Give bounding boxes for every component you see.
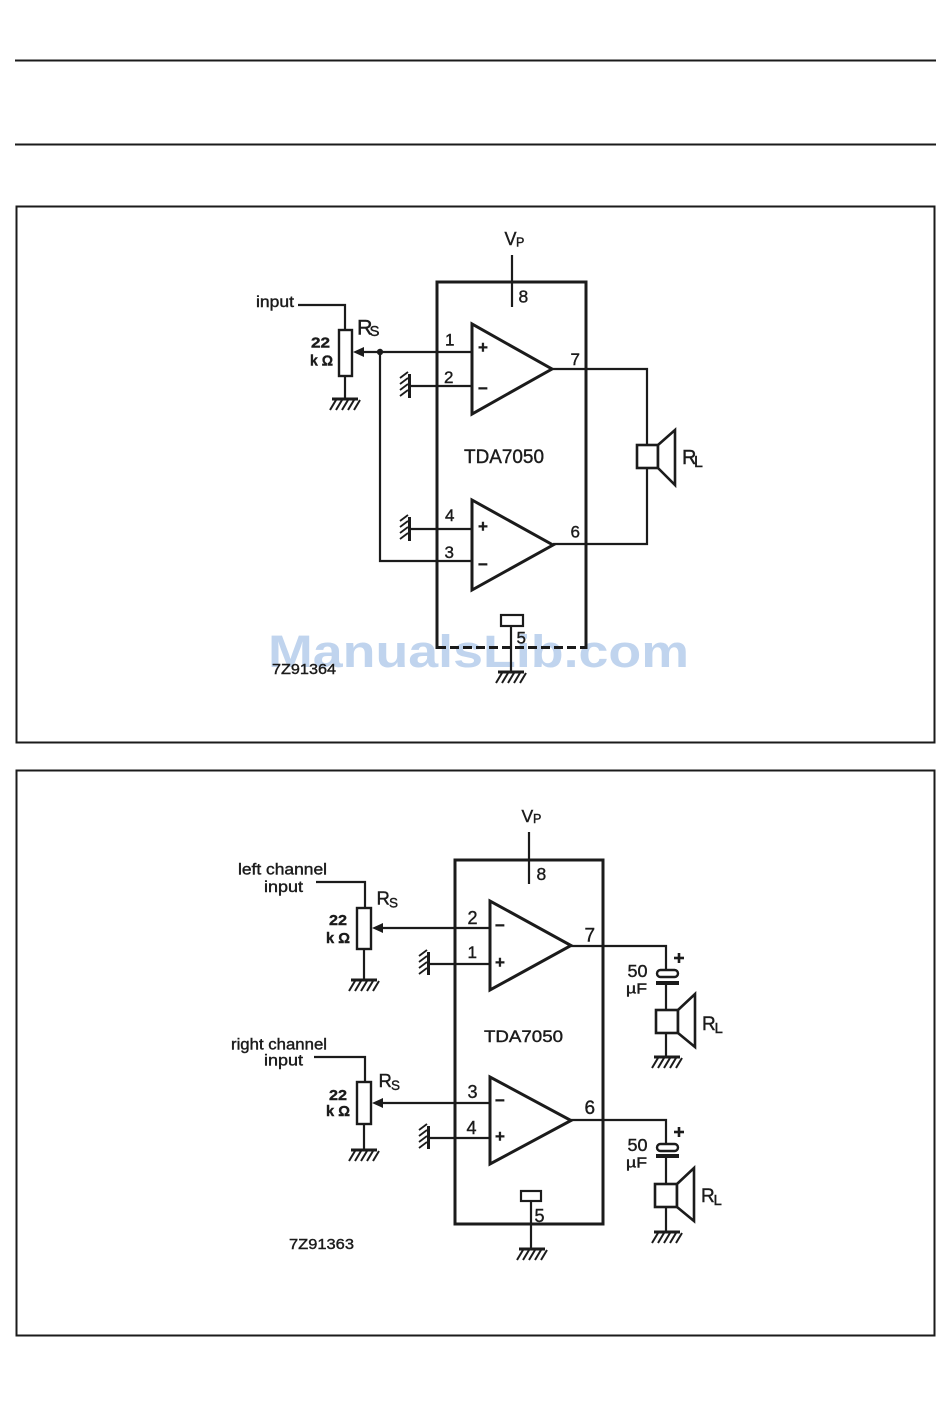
svg-text:7Z91363: 7Z91363 xyxy=(289,1237,354,1253)
value 22 kOhm xyxy=(310,336,333,370)
input label xyxy=(256,294,295,311)
wire feedback node down to pin 3 xyxy=(380,352,472,561)
wire speaker left to ground xyxy=(665,1033,667,1056)
svg-text:µF: µF xyxy=(626,982,647,998)
pin 6 label xyxy=(571,523,580,542)
svg-text:1: 1 xyxy=(468,943,477,962)
wire RS right to ground xyxy=(363,1124,365,1149)
wiper arrow wire to pin 2 xyxy=(372,923,490,933)
svg-text:+: + xyxy=(478,338,488,357)
svg-text:1: 1 xyxy=(445,331,454,350)
pin 7 label xyxy=(585,926,596,947)
svg-text:50: 50 xyxy=(628,961,648,981)
wire pin 2 xyxy=(410,385,472,387)
label RL right xyxy=(701,1186,722,1209)
svg-text:22: 22 xyxy=(329,1088,347,1104)
pin 2 label xyxy=(468,908,478,928)
svg-text:−: − xyxy=(478,379,488,398)
svg-text:8: 8 xyxy=(537,864,547,884)
svg-text:P: P xyxy=(516,236,524,250)
chassis ground at pin 2 xyxy=(400,372,410,398)
ground at pin 5 xyxy=(517,1249,547,1260)
chassis ground at pin 1 xyxy=(419,950,429,975)
left channel input label xyxy=(238,862,327,897)
wire pin 4 xyxy=(429,1137,490,1139)
op-amp U1b xyxy=(472,500,553,590)
pin 5 label xyxy=(535,1206,545,1226)
ground at pin 5 xyxy=(496,672,526,683)
svg-text:TDA7050: TDA7050 xyxy=(464,447,544,468)
svg-text:µF: µF xyxy=(626,1156,647,1172)
node label Vp xyxy=(522,806,542,826)
label RL xyxy=(682,447,703,471)
svg-text:7: 7 xyxy=(585,926,596,947)
svg-text:input: input xyxy=(264,1053,304,1070)
value 22 kOhm left xyxy=(326,913,350,947)
svg-text:left channel: left channel xyxy=(238,862,327,879)
label RS left xyxy=(377,888,399,911)
wire right input to RS xyxy=(314,1057,365,1082)
node junction at wiper xyxy=(377,349,383,355)
pin 8 label xyxy=(537,864,547,884)
pin 8 label xyxy=(519,287,529,307)
svg-text:22: 22 xyxy=(329,913,347,929)
speaker RL xyxy=(637,430,675,485)
IC U1 TDA7050 box xyxy=(437,282,586,649)
wire pin 7 to speaker xyxy=(552,369,647,445)
label RS right xyxy=(379,1070,401,1093)
pin 7 label xyxy=(571,350,580,369)
svg-text:R: R xyxy=(379,1070,392,1091)
capacitor C1 50uF xyxy=(656,970,679,983)
pin 3 label xyxy=(468,1082,478,1102)
pin 1 label xyxy=(445,331,454,350)
pin 1 label xyxy=(468,943,477,962)
svg-text:V: V xyxy=(522,806,534,826)
capacitor C2 50uF xyxy=(656,1144,679,1156)
ground below RS right xyxy=(349,1150,379,1161)
svg-text:−: − xyxy=(495,916,505,935)
svg-text:3: 3 xyxy=(445,543,454,562)
wire speaker right to ground xyxy=(665,1207,667,1231)
svg-text:V: V xyxy=(505,229,517,249)
wire node to pin 1 xyxy=(380,351,472,353)
ground below speaker right xyxy=(652,1232,682,1243)
svg-text:4: 4 xyxy=(467,1118,477,1138)
svg-text:8: 8 xyxy=(519,287,529,307)
ground below RS left xyxy=(349,980,379,991)
svg-text:P: P xyxy=(533,812,541,826)
wire C1 to speaker xyxy=(665,985,667,1010)
node label Vp xyxy=(505,229,525,250)
polarity plus C1 xyxy=(674,953,684,963)
wiper arrow into RS xyxy=(353,347,380,357)
polarity plus C2 xyxy=(674,1127,684,1137)
svg-text:k Ω: k Ω xyxy=(326,930,350,947)
op-amp U1a xyxy=(472,324,552,414)
svg-text:3: 3 xyxy=(468,1082,478,1102)
label RL left xyxy=(702,1014,723,1037)
svg-text:right channel: right channel xyxy=(231,1037,327,1054)
svg-text:TDA7050: TDA7050 xyxy=(484,1028,563,1046)
wiper arrow wire to pin 3 xyxy=(372,1098,490,1108)
svg-text:L: L xyxy=(694,454,703,471)
svg-text:6: 6 xyxy=(585,1098,596,1119)
pin 3 label xyxy=(445,543,454,562)
svg-text:−: − xyxy=(495,1091,505,1110)
svg-text:L: L xyxy=(714,1192,722,1209)
watermark ManualsLib.com xyxy=(268,626,689,677)
svg-text:L: L xyxy=(715,1020,723,1037)
wire Vp supply to pin 8 xyxy=(528,832,530,884)
svg-text:k Ω: k Ω xyxy=(310,353,333,370)
chassis ground at pin 4 xyxy=(400,515,410,541)
svg-text:5: 5 xyxy=(517,629,526,648)
svg-text:50: 50 xyxy=(628,1135,648,1155)
svg-text:+: + xyxy=(495,953,505,972)
wire Vp supply to pin 8 xyxy=(511,255,513,307)
pin 5 stub xyxy=(501,615,523,671)
op-amp U2b xyxy=(490,1077,571,1164)
svg-text:+: + xyxy=(495,1127,505,1146)
speaker RL right xyxy=(655,1168,694,1221)
pin 5 label xyxy=(517,629,526,648)
pin 4 label xyxy=(445,506,454,525)
value 22 kOhm right xyxy=(326,1088,350,1120)
wire RS left to ground xyxy=(363,949,365,979)
pin 5 stub xyxy=(521,1191,541,1248)
chassis ground at pin 4 xyxy=(419,1124,429,1149)
svg-text:k Ω: k Ω xyxy=(326,1103,350,1120)
right channel input label xyxy=(231,1037,327,1070)
value 50 uF C2 xyxy=(626,1135,648,1172)
wire input to Rs xyxy=(298,305,345,330)
wire pin 7 to C1 xyxy=(571,946,666,970)
svg-text:S: S xyxy=(370,323,380,340)
svg-text:22: 22 xyxy=(311,336,330,352)
wire resistor to ground xyxy=(344,376,346,398)
op-amp U2a xyxy=(490,901,571,990)
wire left input to RS xyxy=(316,882,365,908)
ground below RS xyxy=(330,399,360,410)
svg-text:input: input xyxy=(256,294,295,311)
svg-text:R: R xyxy=(377,888,390,909)
resistor RS (22 k) xyxy=(339,330,352,376)
svg-text:5: 5 xyxy=(535,1206,545,1226)
pin 2 label xyxy=(444,368,453,387)
wire pin 4 xyxy=(410,528,472,530)
svg-text:2: 2 xyxy=(468,908,478,928)
svg-text:S: S xyxy=(389,896,398,911)
resistor RS left (22 k) xyxy=(357,908,371,949)
figure code 7Z91363 xyxy=(289,1237,354,1253)
svg-text:S: S xyxy=(391,1078,400,1093)
wire pin 1 xyxy=(429,963,490,965)
IC U2 TDA7050 box xyxy=(455,860,603,1224)
resistor RS right (22 k) xyxy=(357,1082,371,1124)
value 50 uF C1 xyxy=(626,961,648,998)
figure code 7Z91364 xyxy=(272,661,336,678)
svg-text:7Z91364: 7Z91364 xyxy=(272,661,336,678)
wire pin 6 to C2 xyxy=(571,1120,666,1144)
svg-text:4: 4 xyxy=(445,506,454,525)
pin 4 label xyxy=(467,1118,477,1138)
svg-text:2: 2 xyxy=(444,368,453,387)
svg-text:7: 7 xyxy=(571,350,580,369)
speaker RL left xyxy=(656,994,695,1047)
wire C2 to speaker xyxy=(665,1158,667,1184)
label RS xyxy=(357,316,380,341)
svg-text:6: 6 xyxy=(571,523,580,542)
ground below speaker left xyxy=(652,1057,682,1068)
svg-text:−: − xyxy=(478,555,488,574)
pin 6 label xyxy=(585,1098,596,1119)
svg-text:input: input xyxy=(264,879,304,896)
wire pin 6 to speaker xyxy=(553,468,647,544)
svg-text:+: + xyxy=(478,517,488,536)
